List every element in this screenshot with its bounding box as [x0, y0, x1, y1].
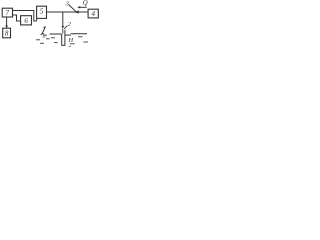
tube left wall: [61, 34, 63, 45]
svg-text:3: 3: [65, 1, 70, 8]
water hatch dash right 3 (under H): [70, 43, 75, 45]
water hatch dash right 4: [69, 45, 72, 47]
flow arrow Q (pointing left): [79, 6, 87, 8]
label 1 (italic numeral with leader look): [41, 27, 46, 35]
water hatch dash left 5: [36, 39, 40, 41]
tube bottom: [61, 44, 65, 46]
background: [0, 0, 100, 51]
wire from block 7 to block 5 (top, with elbow down): [13, 11, 37, 22]
water hatch dash left 2: [43, 36, 46, 38]
block 4 box: [88, 9, 98, 18]
water hatch dash right 2: [84, 41, 89, 43]
water hatch dash left 6: [54, 42, 58, 44]
arrowhead into block 8: [5, 25, 8, 28]
svg-text:6: 6: [24, 17, 28, 25]
valve lever diagonal (label 3 leader): [69, 5, 76, 12]
main pipe wire from block 5 to block 4: [47, 11, 89, 13]
block 5 box: [37, 6, 47, 18]
svg-text:5: 5: [40, 7, 44, 15]
water hatch dash left 7: [40, 42, 44, 44]
water hatch dash left 4: [46, 38, 50, 40]
svg-text:4: 4: [92, 10, 96, 18]
tube right wall: [64, 30, 66, 45]
wire stub up into block 5 bottom: [36, 19, 38, 21]
water surface line left of tube: [50, 33, 62, 35]
wire from block 7 to block 6: [13, 15, 21, 21]
arrowhead down on branch: [62, 26, 65, 29]
water hatch dash left 3: [51, 37, 55, 39]
water surface line right (outer): [71, 33, 88, 35]
block 6 box: [21, 16, 32, 25]
branch wire down from pipe to tank: [62, 12, 64, 26]
junction dot on pipe: [75, 10, 79, 13]
water hatch dash left 1: [43, 34, 47, 36]
svg-text:7: 7: [6, 9, 10, 17]
wire from block 7 down to block 8: [6, 17, 8, 27]
block 7 box: [2, 8, 12, 17]
svg-text:8: 8: [5, 30, 9, 38]
svg-text:Q: Q: [83, 0, 88, 7]
rod continuing into tube: [62, 29, 64, 34]
block 8 box: [3, 28, 11, 38]
water hatch dash right 1: [78, 36, 83, 38]
label 2 leader line: [64, 26, 67, 29]
water surface line right of tube (near tube): [65, 34, 71, 36]
